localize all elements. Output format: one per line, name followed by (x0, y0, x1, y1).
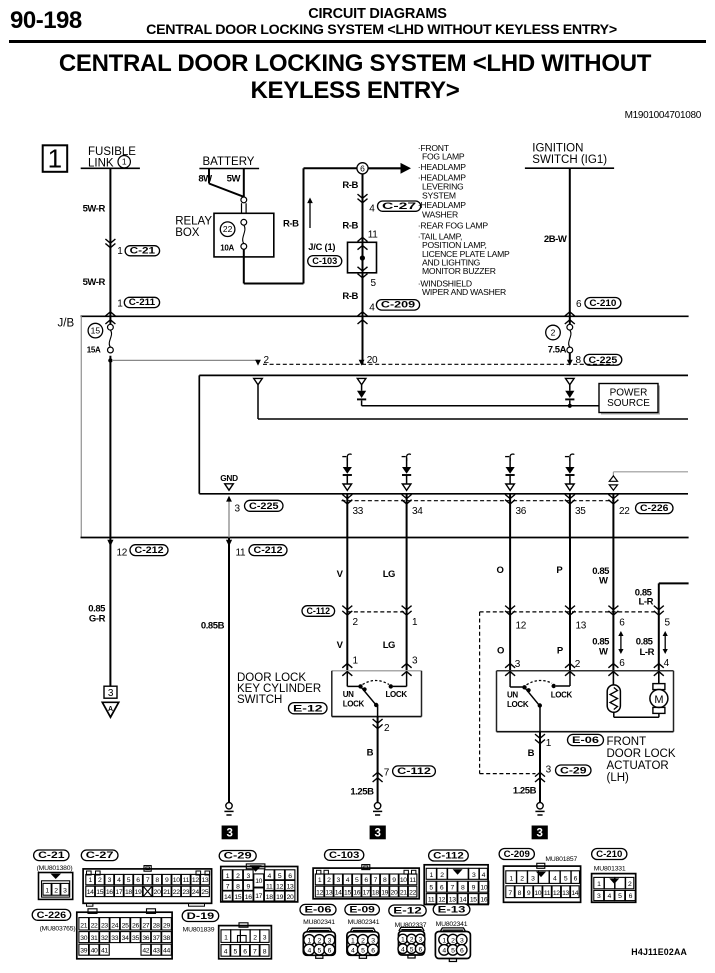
svg-text:19: 19 (135, 889, 142, 896)
svg-text:11: 11 (368, 230, 379, 241)
svg-text:12: 12 (192, 877, 199, 884)
svg-text:3: 3 (336, 877, 340, 884)
svg-text:UN: UN (507, 691, 518, 700)
svg-text:19: 19 (276, 894, 283, 901)
svg-text:LOCK: LOCK (343, 700, 365, 709)
svg-text:·HEADLAMP: ·HEADLAMP (418, 162, 466, 172)
svg-text:M: M (654, 694, 663, 706)
svg-text:14: 14 (459, 896, 466, 903)
svg-text:1: 1 (353, 655, 359, 666)
svg-text:6: 6 (360, 163, 365, 173)
svg-text:9: 9 (165, 877, 169, 884)
svg-text:6: 6 (418, 946, 422, 953)
svg-text:12: 12 (276, 883, 283, 890)
svg-text:15: 15 (91, 326, 101, 336)
svg-text:2: 2 (327, 877, 331, 884)
svg-text:G-R: G-R (89, 614, 106, 625)
svg-text:1: 1 (412, 617, 418, 628)
svg-text:10: 10 (173, 877, 180, 884)
svg-text:2: 2 (410, 937, 414, 944)
svg-text:C-209: C-209 (504, 849, 530, 860)
svg-text:C-27: C-27 (382, 201, 416, 212)
svg-text:POWER: POWER (610, 388, 648, 399)
svg-text:6: 6 (440, 885, 444, 892)
svg-text:7.5A: 7.5A (548, 345, 567, 356)
svg-text:LG: LG (383, 640, 395, 651)
svg-text:6: 6 (364, 877, 368, 884)
svg-text:(LH): (LH) (607, 772, 630, 784)
svg-text:1.25B: 1.25B (513, 786, 537, 797)
svg-text:23: 23 (182, 889, 189, 896)
svg-text:C-112: C-112 (397, 766, 431, 777)
svg-text:21: 21 (163, 889, 170, 896)
svg-text:LG: LG (383, 569, 395, 580)
svg-text:C-112: C-112 (307, 606, 331, 617)
svg-text:BATTERY: BATTERY (203, 156, 255, 168)
svg-text:2: 2 (551, 328, 556, 338)
svg-text:R-B: R-B (342, 221, 358, 232)
svg-text:13: 13 (449, 896, 456, 903)
svg-text:8: 8 (236, 883, 240, 890)
svg-text:6: 6 (574, 875, 578, 882)
svg-text:C-210: C-210 (596, 849, 622, 860)
svg-text:C-103: C-103 (329, 850, 359, 861)
svg-text:4: 4 (369, 204, 375, 215)
svg-text:·REAR FOG LAMP: ·REAR FOG LAMP (418, 221, 489, 231)
svg-text:LOCK: LOCK (551, 691, 573, 700)
svg-text:C-225: C-225 (249, 501, 279, 512)
svg-text:4: 4 (117, 877, 121, 884)
svg-text:MU801331: MU801331 (594, 866, 626, 873)
svg-text:2: 2 (253, 934, 257, 941)
svg-text:5: 5 (410, 946, 414, 953)
svg-text:5: 5 (665, 618, 671, 629)
svg-text:22: 22 (91, 922, 98, 929)
svg-text:5: 5 (318, 947, 322, 954)
svg-text:2: 2 (236, 873, 240, 880)
svg-text:1: 1 (48, 143, 62, 173)
svg-text:9: 9 (392, 877, 396, 884)
svg-text:C-209: C-209 (381, 300, 415, 311)
svg-text:9: 9 (247, 883, 251, 890)
svg-text:MU801857: MU801857 (545, 856, 577, 863)
svg-text:3: 3 (418, 937, 422, 944)
svg-text:12: 12 (516, 620, 527, 631)
svg-text:25: 25 (201, 889, 208, 896)
svg-text:18: 18 (372, 889, 379, 896)
svg-text:33: 33 (353, 506, 364, 517)
svg-text:26: 26 (132, 922, 139, 929)
svg-text:1: 1 (509, 875, 513, 882)
svg-text:R-B: R-B (342, 180, 358, 191)
svg-text:34: 34 (412, 506, 423, 517)
svg-text:37: 37 (153, 935, 160, 942)
svg-text:4: 4 (442, 948, 446, 955)
svg-text:2: 2 (353, 617, 359, 628)
svg-text:7: 7 (226, 883, 230, 890)
svg-text:4: 4 (351, 947, 355, 954)
svg-text:3: 3 (374, 828, 380, 840)
svg-text:1: 1 (430, 872, 434, 879)
svg-text:6: 6 (576, 299, 582, 310)
svg-text:SWITCH: SWITCH (237, 694, 282, 706)
svg-text:13: 13 (576, 620, 587, 631)
svg-text:3: 3 (597, 893, 601, 900)
svg-text:C-211: C-211 (129, 297, 156, 308)
svg-text:J/B: J/B (58, 318, 75, 330)
svg-text:3: 3 (546, 765, 552, 776)
svg-text:11: 11 (544, 890, 551, 897)
svg-text:C-29: C-29 (560, 765, 587, 776)
svg-text:15: 15 (234, 894, 241, 901)
svg-text:5: 5 (355, 877, 359, 884)
svg-text:A: A (108, 706, 113, 713)
svg-text:35: 35 (132, 935, 139, 942)
svg-text:W: W (599, 576, 608, 587)
svg-text:11: 11 (236, 547, 247, 558)
svg-text:36: 36 (142, 935, 149, 942)
svg-text:1: 1 (401, 937, 405, 944)
svg-text:12: 12 (438, 896, 445, 903)
svg-text:C-210: C-210 (589, 298, 616, 309)
svg-text:6: 6 (288, 873, 292, 880)
svg-text:17: 17 (363, 889, 370, 896)
svg-text:14: 14 (335, 889, 342, 896)
svg-text:5: 5 (451, 948, 455, 955)
svg-text:SOURCE: SOURCE (607, 398, 650, 409)
svg-text:1: 1 (122, 157, 127, 167)
svg-text:FRONT: FRONT (607, 736, 647, 748)
svg-text:3: 3 (263, 934, 267, 941)
svg-text:3: 3 (536, 828, 542, 840)
svg-text:3: 3 (226, 828, 232, 840)
svg-text:O: O (497, 646, 504, 657)
svg-text:8: 8 (263, 949, 267, 956)
svg-text:IGNITION: IGNITION (532, 143, 583, 155)
svg-text:BOX: BOX (175, 227, 200, 239)
svg-text:1: 1 (117, 246, 123, 257)
svg-text:V: V (337, 569, 344, 580)
svg-text:GND: GND (220, 473, 238, 483)
svg-text:8: 8 (461, 885, 465, 892)
svg-text:1: 1 (442, 937, 446, 944)
svg-text:3: 3 (412, 655, 418, 666)
svg-text:MU802341: MU802341 (348, 919, 380, 926)
svg-text:8: 8 (383, 877, 387, 884)
svg-text:16: 16 (106, 889, 113, 896)
svg-text:17: 17 (255, 893, 262, 900)
svg-text:2: 2 (98, 877, 102, 884)
svg-text:20: 20 (287, 894, 294, 901)
svg-text:3: 3 (472, 872, 476, 879)
svg-text:35: 35 (575, 506, 586, 517)
svg-text:6: 6 (371, 947, 375, 954)
svg-text:B: B (367, 748, 374, 759)
svg-text:6: 6 (619, 658, 625, 669)
svg-text:13: 13 (325, 889, 332, 896)
svg-text:ACTUATOR: ACTUATOR (607, 760, 669, 772)
svg-text:13: 13 (201, 877, 208, 884)
svg-text:11: 11 (428, 896, 435, 903)
svg-text:10A: 10A (220, 243, 234, 252)
svg-text:22: 22 (619, 506, 630, 517)
svg-text:0.85B: 0.85B (201, 621, 225, 632)
svg-text:38: 38 (163, 935, 170, 942)
svg-text:5W-R: 5W-R (83, 204, 106, 215)
svg-text:9: 9 (472, 885, 476, 892)
svg-text:1: 1 (226, 873, 230, 880)
svg-text:MU802341: MU802341 (303, 919, 335, 926)
svg-text:4: 4 (224, 949, 228, 956)
svg-text:P: P (557, 646, 564, 657)
svg-text:4: 4 (553, 875, 557, 882)
svg-text:4: 4 (482, 872, 486, 879)
svg-text:1: 1 (117, 298, 123, 309)
svg-text:33: 33 (111, 935, 118, 942)
svg-text:P: P (556, 565, 563, 576)
svg-text:32: 32 (101, 935, 108, 942)
svg-text:3: 3 (531, 875, 535, 882)
svg-text:1: 1 (546, 738, 552, 749)
svg-text:22: 22 (173, 889, 180, 896)
svg-text:15: 15 (344, 889, 351, 896)
svg-text:5: 5 (564, 875, 568, 882)
svg-text:20: 20 (154, 889, 161, 896)
svg-text:3: 3 (235, 503, 241, 514)
svg-text:3: 3 (247, 873, 251, 880)
svg-text:(MU803765): (MU803765) (40, 925, 76, 932)
svg-text:C-226: C-226 (640, 503, 669, 514)
svg-text:29: 29 (163, 922, 170, 929)
svg-text:41: 41 (101, 948, 108, 955)
svg-text:3: 3 (108, 688, 114, 699)
svg-text:10: 10 (255, 878, 262, 885)
svg-text:12: 12 (316, 889, 323, 896)
svg-text:20: 20 (391, 889, 398, 896)
svg-text:24: 24 (192, 889, 199, 896)
svg-text:1: 1 (45, 888, 49, 895)
svg-text:44: 44 (163, 948, 170, 955)
svg-text:5: 5 (278, 873, 282, 880)
svg-text:L-R: L-R (639, 597, 654, 608)
svg-text:B: B (528, 748, 535, 759)
svg-text:17: 17 (115, 889, 122, 896)
svg-text:8: 8 (155, 877, 159, 884)
svg-text:R-B: R-B (283, 218, 299, 229)
svg-text:2: 2 (384, 723, 390, 734)
svg-text:7: 7 (253, 949, 257, 956)
svg-text:36: 36 (516, 506, 527, 517)
svg-text:J/C (1): J/C (1) (308, 242, 335, 252)
svg-text:34: 34 (122, 935, 129, 942)
svg-text:11: 11 (183, 877, 190, 884)
svg-text:UN: UN (343, 690, 354, 699)
svg-text:12: 12 (117, 547, 128, 558)
svg-text:27: 27 (142, 922, 149, 929)
svg-text:9: 9 (527, 890, 531, 897)
svg-text:14: 14 (87, 889, 94, 896)
svg-text:6: 6 (460, 948, 464, 955)
svg-text:5: 5 (371, 278, 377, 289)
svg-text:15: 15 (96, 889, 103, 896)
svg-text:4: 4 (401, 946, 405, 953)
svg-text:H4J11E02AA: H4J11E02AA (631, 947, 687, 957)
svg-text:4: 4 (307, 947, 311, 954)
svg-text:21: 21 (80, 922, 87, 929)
svg-text:19: 19 (381, 889, 388, 896)
svg-text:WIPER AND WASHER: WIPER AND WASHER (422, 287, 506, 297)
svg-text:4: 4 (369, 303, 375, 314)
svg-text:C-27: C-27 (86, 850, 114, 861)
svg-text:5: 5 (429, 885, 433, 892)
svg-text:E-06: E-06 (305, 905, 332, 916)
svg-text:22: 22 (223, 224, 233, 234)
svg-text:FUSIBLE: FUSIBLE (88, 146, 136, 158)
svg-text:R-B: R-B (342, 291, 358, 302)
svg-text:6: 6 (629, 893, 633, 900)
svg-text:2: 2 (575, 659, 581, 670)
svg-text:4: 4 (608, 893, 612, 900)
svg-text:10: 10 (534, 890, 541, 897)
svg-text:39: 39 (80, 948, 87, 955)
svg-text:MONITOR BUZZER: MONITOR BUZZER (422, 266, 496, 276)
svg-text:7: 7 (450, 885, 454, 892)
svg-text:15: 15 (470, 896, 477, 903)
svg-text:40: 40 (91, 948, 98, 955)
svg-text:W: W (599, 647, 608, 658)
svg-text:C-21: C-21 (130, 245, 156, 256)
svg-text:O: O (497, 565, 504, 576)
svg-text:6: 6 (619, 618, 625, 629)
svg-text:5W: 5W (227, 174, 241, 185)
svg-text:E-12: E-12 (293, 703, 323, 714)
svg-text:LOCK: LOCK (386, 690, 408, 699)
svg-text:LOCK: LOCK (507, 700, 529, 709)
svg-text:13: 13 (287, 883, 294, 890)
svg-text:5: 5 (361, 947, 365, 954)
svg-text:C-112: C-112 (433, 851, 464, 862)
svg-text:6: 6 (328, 947, 332, 954)
svg-text:(MU801380): (MU801380) (37, 865, 73, 872)
svg-text:SYSTEM: SYSTEM (422, 191, 456, 201)
svg-text:MU802341: MU802341 (436, 921, 468, 928)
svg-text:10: 10 (480, 885, 487, 892)
svg-text:C-103: C-103 (312, 256, 337, 267)
svg-text:1.25B: 1.25B (350, 787, 374, 798)
svg-text:E-13: E-13 (438, 905, 466, 916)
svg-text:1: 1 (318, 877, 322, 884)
svg-text:V: V (337, 640, 344, 651)
svg-text:5W-R: 5W-R (83, 277, 106, 288)
svg-text:18: 18 (125, 889, 132, 896)
svg-text:C-21: C-21 (38, 850, 65, 861)
svg-text:FOG LAMP: FOG LAMP (422, 151, 465, 161)
svg-text:3: 3 (108, 877, 112, 884)
svg-text:18: 18 (266, 894, 273, 901)
svg-text:MU801839: MU801839 (183, 927, 215, 934)
svg-text:DOOR LOCK: DOOR LOCK (607, 748, 676, 760)
svg-text:2: 2 (440, 872, 444, 879)
svg-text:22: 22 (409, 889, 416, 896)
svg-text:1: 1 (597, 881, 601, 888)
svg-text:WASHER: WASHER (422, 209, 458, 219)
svg-text:28: 28 (153, 922, 160, 929)
svg-text:31: 31 (91, 935, 98, 942)
svg-text:5: 5 (618, 893, 622, 900)
svg-text:2: 2 (54, 888, 58, 895)
svg-text:C-226: C-226 (37, 910, 67, 921)
svg-text:16: 16 (480, 896, 487, 903)
svg-text:2B-W: 2B-W (544, 234, 567, 245)
svg-text:1: 1 (224, 934, 228, 941)
svg-text:C-212: C-212 (135, 545, 164, 556)
svg-text:5: 5 (234, 949, 238, 956)
svg-text:13: 13 (562, 890, 569, 897)
svg-text:C-29: C-29 (224, 851, 252, 862)
svg-text:6: 6 (243, 949, 247, 956)
svg-text:16: 16 (245, 894, 252, 901)
svg-text:14: 14 (224, 894, 231, 901)
svg-text:4: 4 (664, 658, 670, 669)
svg-text:30: 30 (80, 935, 87, 942)
svg-text:7: 7 (146, 877, 150, 884)
svg-text:12: 12 (553, 890, 560, 897)
svg-text:7: 7 (374, 877, 378, 884)
svg-text:E-06: E-06 (572, 735, 599, 746)
svg-text:3: 3 (460, 937, 464, 944)
svg-text:C-212: C-212 (254, 545, 283, 556)
svg-text:24: 24 (111, 922, 118, 929)
svg-text:42: 42 (142, 948, 149, 955)
svg-text:E-12: E-12 (393, 906, 421, 917)
svg-text:15A: 15A (87, 346, 101, 355)
svg-text:7: 7 (508, 890, 512, 897)
svg-text:RELAY: RELAY (175, 216, 212, 228)
svg-text:6: 6 (136, 877, 140, 884)
svg-text:E-09: E-09 (349, 905, 375, 916)
svg-text:3: 3 (63, 888, 67, 895)
svg-text:SWITCH (IG1): SWITCH (IG1) (532, 154, 607, 166)
svg-text:4: 4 (268, 873, 272, 880)
svg-text:8: 8 (518, 890, 522, 897)
svg-text:D-19: D-19 (187, 911, 215, 922)
svg-text:25: 25 (122, 922, 129, 929)
svg-text:2: 2 (451, 937, 455, 944)
svg-text:14: 14 (571, 890, 578, 897)
svg-text:11: 11 (266, 883, 273, 890)
svg-text:10: 10 (400, 877, 407, 884)
svg-text:2: 2 (520, 875, 524, 882)
svg-text:3: 3 (515, 659, 521, 670)
svg-text:7: 7 (384, 767, 390, 778)
svg-text:43: 43 (153, 948, 160, 955)
svg-text:23: 23 (101, 922, 108, 929)
svg-text:L-R: L-R (640, 647, 655, 658)
svg-text:21: 21 (400, 889, 407, 896)
svg-text:5: 5 (127, 877, 131, 884)
svg-text:4: 4 (346, 877, 350, 884)
svg-text:2: 2 (628, 881, 632, 888)
svg-text:1: 1 (88, 877, 92, 884)
svg-text:16: 16 (353, 889, 360, 896)
svg-text:11: 11 (409, 877, 416, 884)
